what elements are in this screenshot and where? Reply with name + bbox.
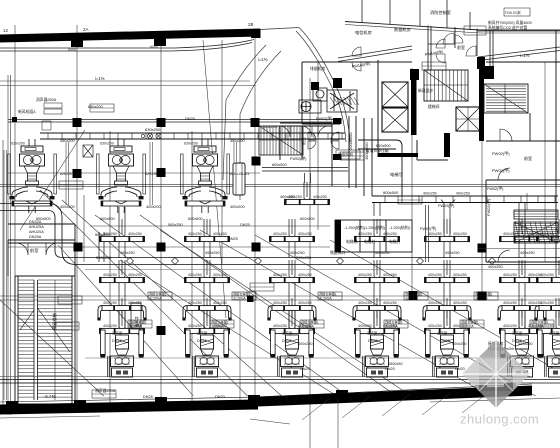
label boxes pairs near stacks	[55, 62, 554, 398]
svg-text:400x200: 400x200	[230, 205, 245, 209]
horizontal thick wall below shafts	[378, 153, 418, 157]
svg-text:-1.250(结构): -1.250(结构)	[389, 225, 411, 230]
duct tee down x448	[441, 200, 455, 204]
scattered dimension labels	[29, 66, 535, 399]
svg-text:i=1%: i=1%	[520, 53, 530, 58]
svg-text:JL:20mA: JL:20mA	[319, 296, 332, 300]
sidewalk lines left curving to band end	[0, 40, 254, 52]
thin line y269.5	[85, 269, 560, 271]
T-branch row1 x122	[100, 219, 145, 242]
svg-text:6000: 6000	[150, 45, 158, 49]
T-branch row2 x292	[270, 260, 315, 283]
long duct with elbow from top-left	[0, 204, 560, 265]
vent shaft X box lower	[382, 108, 408, 132]
AHU machine in plant room	[299, 88, 357, 113]
svg-text:DN25A: DN25A	[29, 235, 42, 239]
elevator machine room box	[335, 220, 412, 252]
thin line y358	[85, 357, 560, 359]
band end bump column	[251, 29, 261, 38]
svg-text:400x250: 400x250	[488, 265, 503, 269]
T-branch row4 x377	[355, 311, 400, 334]
diagonal leader lines	[0, 40, 560, 396]
partial stack right edge	[537, 219, 560, 242]
svg-text:500x250: 500x250	[296, 255, 312, 260]
label box pair	[464, 8, 530, 35]
svg-text:DN25: DN25	[112, 339, 122, 343]
svg-text:JL:20mA: JL:20mA	[233, 296, 246, 300]
svg-text:400x200: 400x200	[60, 205, 75, 209]
svg-text:前室: 前室	[300, 137, 306, 145]
svg-text:JL:20mA: JL:20mA	[475, 296, 488, 300]
fan coil unit AHU x32	[8, 142, 57, 214]
T-branch row2 x122	[100, 260, 145, 283]
thick wall x480	[479, 62, 484, 141]
svg-text:JL:20mA: JL:20mA	[385, 324, 398, 328]
ramp arcs	[223, 45, 281, 200]
svg-text:新风竖井: 新风竖井	[418, 88, 433, 93]
svg-text:-1.250(结构): -1.250(结构)	[364, 225, 386, 230]
T-branch row1 x377	[355, 219, 400, 242]
svg-text:FW02(甲): FW02(甲)	[486, 198, 491, 216]
svg-text:PW02(甲): PW02(甲)	[492, 151, 510, 156]
grid horizontals	[0, 81, 560, 300]
room labels top	[355, 9, 451, 36]
svg-text:消声器250A: 消声器250A	[95, 388, 116, 393]
hatched equipment block right	[514, 193, 560, 243]
riser links x122	[119, 242, 125, 330]
svg-text:电梯机: 电梯机	[346, 239, 358, 244]
svg-text:2B: 2B	[248, 22, 254, 27]
svg-text:AHU-B1-01: AHU-B1-01	[230, 172, 249, 176]
svg-text:500x250: 500x250	[95, 233, 110, 237]
svg-text:500x250: 500x250	[96, 255, 112, 260]
svg-text:前室: 前室	[524, 155, 532, 161]
stairwell left outer walls	[15, 276, 75, 404]
door arcs right rooms	[498, 129, 512, 262]
butterfly doors	[308, 132, 339, 149]
svg-text:AHU-B1-02: AHU-B1-02	[145, 172, 164, 176]
stair S1 core top	[424, 70, 468, 101]
band bump column x77	[71, 40, 83, 47]
room divider verticals top	[362, 0, 470, 30]
column 482,296	[478, 292, 487, 301]
svg-text:AHU25A: AHU25A	[29, 225, 44, 229]
pipe pairs between units	[66, 142, 237, 205]
T-branch row2 x377	[355, 260, 400, 283]
small silencer box x83	[83, 145, 93, 157]
svg-text:400x250: 400x250	[290, 251, 305, 255]
svg-text:消声器250A: 消声器250A	[36, 97, 57, 102]
svg-text:400x250: 400x250	[456, 192, 470, 196]
svg-text:-6.746: -6.746	[44, 394, 57, 399]
bottom duct double line y380	[0, 380, 560, 384]
H-branch row3 x292	[267, 298, 316, 321]
svg-text:600x500: 600x500	[100, 217, 115, 221]
svg-text:FW02(甲): FW02(甲)	[420, 226, 437, 231]
riser links x447	[444, 242, 450, 330]
svg-text:i=1%: i=1%	[258, 57, 268, 62]
svg-text:FW02(甲): FW02(甲)	[316, 116, 333, 121]
right rooms	[486, 30, 560, 262]
svg-text:450x200: 450x200	[60, 139, 75, 143]
wall x84	[83, 195, 85, 262]
svg-text:600x500: 600x500	[300, 217, 315, 221]
svg-text:DN25: DN25	[440, 339, 450, 343]
door arcs rooms	[279, 126, 329, 137]
escalator hatch left of core	[259, 126, 303, 155]
svg-text:800x500: 800x500	[383, 190, 399, 195]
T hang x447 x522 from duct y200	[444, 203, 525, 234]
grid tick labels above band	[3, 22, 254, 52]
door arcs inner rooms	[443, 33, 476, 56]
column 78,247	[74, 243, 83, 252]
svg-text:400x250: 400x250	[452, 342, 467, 346]
top-right inner rooms x420-500	[428, 26, 560, 71]
svg-text:预留楼梯: 预留楼梯	[51, 313, 58, 330]
top road thick band	[0, 29, 260, 43]
svg-text:电缆井: 电缆井	[389, 239, 401, 244]
svg-text:zhulong.com: zhulong.com	[460, 412, 539, 427]
wall line y248.5 right	[478, 248, 560, 250]
svg-text:新风机组A: 新风机组A	[18, 109, 36, 114]
room above stairwell	[8, 224, 75, 276]
T-branch row4 x207	[185, 311, 230, 334]
bottom fan coil unit x447	[426, 330, 469, 377]
svg-text:1500x50: 1500x50	[388, 362, 403, 366]
svg-text:400x250: 400x250	[120, 251, 135, 255]
svg-text:系统编号CO2 进户对管: 系统编号CO2 进户对管	[488, 25, 527, 30]
svg-text:JL:20mA: JL:20mA	[211, 324, 224, 328]
V-branch upper x307	[285, 182, 330, 205]
svg-text:DN20: DN20	[385, 367, 395, 371]
connection stub	[202, 139, 208, 146]
svg-text:AHU-B1-03: AHU-B1-03	[60, 172, 79, 176]
svg-text:400x250: 400x250	[375, 251, 390, 255]
dampers on duct	[127, 258, 134, 265]
bottom fan coil unit x292	[271, 330, 314, 377]
corridor slanted walls	[338, 46, 560, 62]
svg-text:JL:20mA: JL:20mA	[531, 324, 544, 328]
insulated duct hatch to shaft	[330, 97, 359, 105]
bottom road band B	[258, 386, 532, 407]
svg-text:电缆井: 电缆井	[364, 239, 376, 244]
svg-text:400x250: 400x250	[445, 251, 460, 255]
svg-text:i=1%: i=1%	[95, 76, 105, 81]
H-branch row3 x522	[497, 298, 546, 321]
road curve outer arc	[260, 28, 350, 143]
排烟风机 label box	[336, 150, 360, 159]
duct start riser	[99, 232, 104, 262]
svg-text:400x250: 400x250	[423, 192, 437, 196]
svg-text:2000x500: 2000x500	[348, 132, 353, 150]
svg-text:楼梯间: 楼梯间	[428, 104, 440, 109]
top-left small equip + labels	[42, 103, 62, 130]
svg-text:600x500: 600x500	[36, 217, 51, 221]
svg-text:FW02(甲): FW02(甲)	[487, 186, 504, 191]
rooms below core	[280, 123, 332, 186]
stair break line	[20, 308, 70, 352]
svg-text:6000: 6000	[68, 48, 76, 52]
column 161,122.5	[157, 118, 166, 127]
column 77,173.5	[73, 169, 82, 178]
T-branch row1 x522	[500, 219, 545, 242]
horizontal duct right y200	[372, 196, 558, 203]
svg-text:排烟机房: 排烟机房	[310, 66, 325, 71]
T-branch row2 x207	[185, 260, 230, 283]
svg-text:DN25: DN25	[228, 237, 238, 241]
svg-text:2A: 2A	[83, 27, 89, 32]
T-branch row1 x207	[185, 219, 230, 242]
stair treads right flight	[38, 280, 73, 400]
svg-text:630x200: 630x200	[145, 127, 161, 132]
fan coil unit AHU x205	[181, 142, 230, 214]
duct 800x500 to core	[262, 168, 348, 172]
svg-text:450x200: 450x200	[230, 139, 245, 143]
svg-text:FW02(甲): FW02(甲)	[438, 203, 455, 208]
svg-text:400x250: 400x250	[298, 342, 313, 346]
top rooms wall polyline	[345, 22, 560, 34]
grid line y120 double	[8, 120, 335, 123]
H-branch row3 x122	[97, 298, 146, 321]
connection stub	[29, 139, 35, 146]
stair S2 right	[484, 84, 528, 113]
svg-text:800x500: 800x500	[272, 163, 287, 167]
svg-text:电梯厅: 电梯厅	[390, 171, 403, 178]
column top right	[477, 57, 485, 69]
column 413,295.5	[409, 291, 418, 300]
svg-text:侧送风口: 侧送风口	[330, 250, 345, 255]
thick left wall of machine room	[335, 220, 341, 252]
svg-text:DN25: DN25	[512, 339, 522, 343]
fan coil unit AHU x121	[97, 142, 146, 214]
svg-text:400x250: 400x250	[280, 195, 295, 199]
left pipe pair	[4, 150, 7, 400]
svg-text:PW02(甲): PW02(甲)	[492, 168, 510, 173]
stair treads left flight	[18, 280, 34, 397]
T-branch row1 x292	[270, 219, 315, 242]
svg-text:DN25: DN25	[240, 223, 250, 227]
bottom fan coil unit x122	[101, 330, 144, 377]
svg-text:前室: 前室	[30, 247, 38, 254]
svg-text:JL:20mA: JL:20mA	[149, 296, 162, 300]
bottom fan coil unit x207	[186, 330, 229, 377]
door swing arcs on corridor	[352, 39, 445, 71]
svg-text:AHU20A: AHU20A	[29, 230, 44, 234]
svg-text:-1.250(结构): -1.250(结构)	[344, 225, 366, 230]
wall pair x426	[426, 205, 429, 262]
door arcs room	[16, 243, 58, 255]
thick wall right of shafts	[411, 70, 417, 135]
diagonal ticks below band	[302, 391, 490, 420]
upper risers x122,x307,x377	[119, 173, 380, 219]
H-branch row3 x377	[352, 298, 401, 321]
svg-text:前室: 前室	[457, 44, 465, 50]
svg-text:JL:20mA: JL:20mA	[129, 324, 142, 328]
riser links x522	[519, 242, 525, 330]
svg-text:新风井750(200) 风量4600: 新风井750(200) 风量4600	[488, 20, 532, 25]
PW labels slanted duct	[351, 20, 531, 69]
watermark diamond	[462, 340, 530, 408]
bottom road band A	[0, 400, 258, 415]
svg-text:DN25: DN25	[368, 339, 378, 343]
column 255,122.5	[251, 118, 260, 127]
T-branch row2 x447	[425, 260, 470, 283]
column 256,247	[252, 243, 261, 252]
band bumps	[6, 401, 18, 409]
svg-text:600x500: 600x500	[188, 217, 203, 221]
svg-text:DN20: DN20	[455, 367, 465, 371]
band top thin line	[0, 384, 532, 402]
svg-text:12: 12	[3, 28, 9, 33]
svg-text:DN25: DN25	[185, 117, 195, 121]
T-branch row4 x292	[270, 311, 315, 334]
svg-text:400x200: 400x200	[146, 205, 161, 209]
T-branch row4 x122	[100, 311, 145, 334]
废风井 shaft box	[131, 303, 141, 329]
bottom fan coil unit x522	[501, 330, 544, 377]
bottom fan coil unit x377	[356, 330, 399, 377]
elevator X box right	[456, 107, 480, 131]
svg-text:DN25: DN25	[282, 339, 292, 343]
svg-text:PW160(甲): PW160(甲)	[424, 49, 444, 57]
vent shaft X box upper	[382, 82, 408, 107]
connection stub	[118, 139, 124, 146]
riser links x207	[204, 242, 210, 330]
column 256,161	[252, 157, 261, 166]
svg-text:电信机房: 电信机房	[355, 29, 372, 36]
svg-text:400x250: 400x250	[205, 251, 220, 255]
svg-text:DN25: DN25	[197, 339, 207, 343]
svg-text:600x500: 600x500	[376, 144, 391, 148]
T-branch row1 x447	[425, 219, 470, 242]
band bump column x160	[154, 37, 166, 46]
core outline walls	[302, 60, 448, 160]
svg-text:DN25: DN25	[143, 395, 153, 399]
svg-text:500x250: 500x250	[168, 223, 183, 227]
column 161,172.5	[157, 168, 166, 177]
H-branch row3 x207	[182, 298, 231, 321]
duct inline fittings	[141, 133, 161, 138]
column 161,247	[157, 243, 166, 252]
main supply duct y133	[40, 133, 345, 139]
svg-text:FW02(甲): FW02(甲)	[290, 156, 307, 161]
T-branch row4 x522	[500, 311, 545, 334]
svg-text:DN20: DN20	[300, 367, 310, 371]
riser links x292	[289, 242, 295, 330]
core column blobs	[311, 82, 319, 90]
svg-text:消防控制室: 消防控制室	[430, 9, 451, 16]
thick wall stub	[444, 133, 450, 157]
columns at escalator room	[333, 118, 342, 124]
vertical ducts from core	[349, 116, 372, 196]
duct elbow core bottom	[358, 140, 402, 196]
svg-text:JL:20mA: JL:20mA	[461, 324, 474, 328]
lines below band	[0, 398, 560, 424]
right wall x545	[544, 62, 546, 262]
H-branch row3 x447	[422, 298, 471, 321]
column 77,122.5	[73, 118, 82, 127]
svg-text:450x200: 450x200	[262, 124, 278, 129]
column 161,330.5	[157, 326, 166, 335]
riser links x377	[374, 242, 380, 330]
svg-text:数据机房: 数据机房	[394, 26, 411, 33]
svg-text:DN20: DN20	[215, 395, 225, 399]
svg-text:JL:20mA: JL:20mA	[301, 324, 314, 328]
small column 250,299	[247, 296, 254, 303]
svg-text:JL:20mA: JL:20mA	[405, 296, 418, 300]
T-branch row2 x522	[500, 260, 545, 283]
svg-text:1600x500: 1600x500	[364, 142, 369, 160]
svg-text:400x250: 400x250	[520, 251, 535, 255]
column 482,248	[478, 244, 487, 253]
riser duct x237	[233, 163, 245, 195]
svg-text:IT/A 21米: IT/A 21米	[505, 10, 521, 15]
T-branch row4 x447	[425, 311, 470, 334]
